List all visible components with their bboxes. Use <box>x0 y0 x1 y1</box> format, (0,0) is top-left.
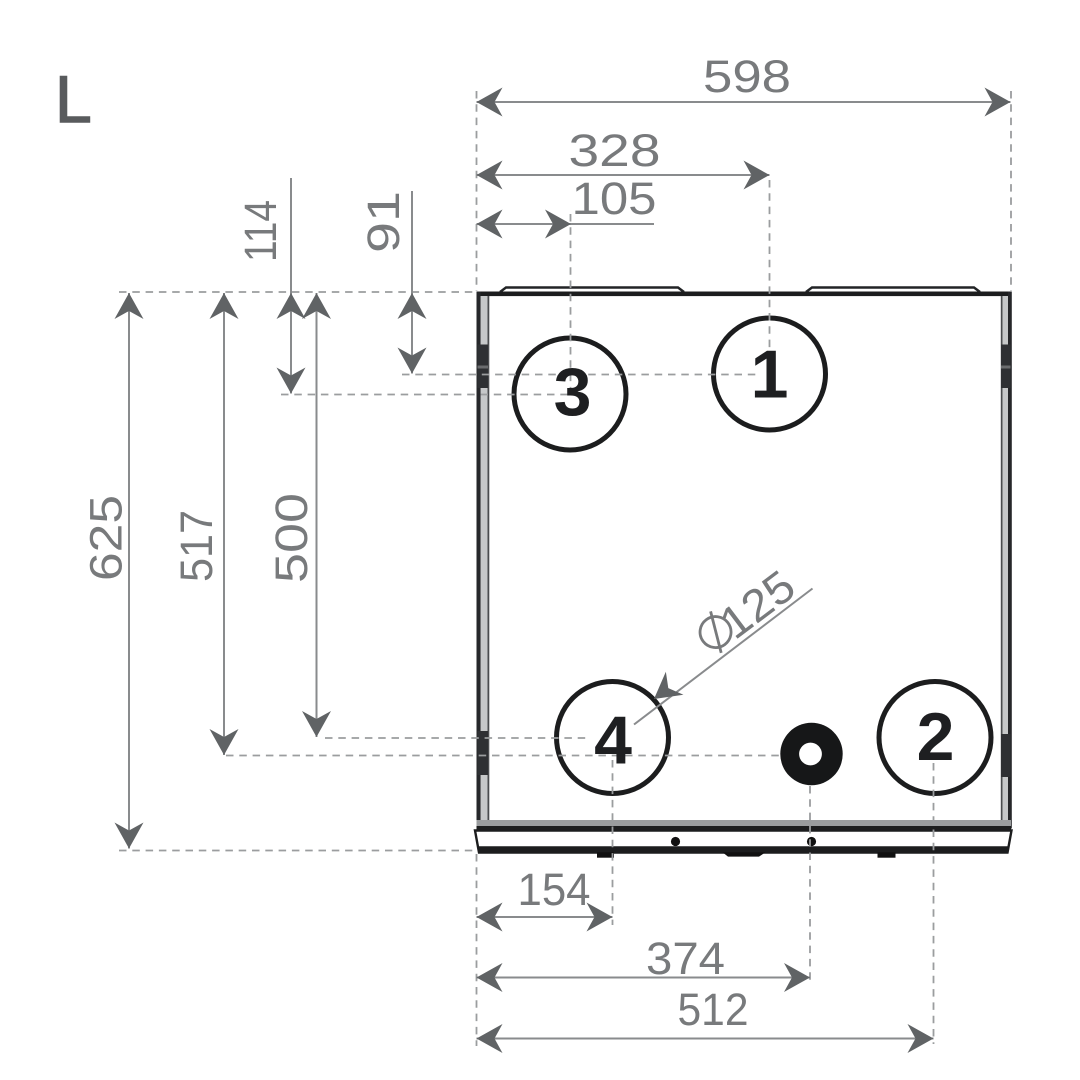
right edge latch mark lower <box>1001 734 1011 777</box>
port circle 3 <box>514 338 626 450</box>
unit top raised tab left <box>500 288 684 293</box>
unit left edge panel fill <box>481 296 488 824</box>
svg-text:105: 105 <box>572 173 657 224</box>
centerline horizontal circle 3 level <box>281 394 573 396</box>
svg-text:598: 598 <box>703 51 791 102</box>
centerline horizontal circle 1 level <box>402 374 760 376</box>
dimension 105 <box>477 173 657 239</box>
dimension 154 <box>477 864 613 932</box>
port circle 1 <box>714 318 826 430</box>
centerline vertical gland lower <box>809 786 811 984</box>
unit right edge panel fill <box>1003 296 1008 824</box>
drain center <box>723 852 766 856</box>
unit bottom edge line <box>477 826 1012 831</box>
foot left <box>597 852 614 857</box>
plinth screw left <box>671 837 680 846</box>
svg-text:374: 374 <box>646 933 725 984</box>
port circle 2 <box>879 682 991 794</box>
centerline horizontal circle 4 level <box>325 737 591 739</box>
centerline vertical circle 1 <box>769 180 771 374</box>
unit left edge outer line <box>477 292 481 829</box>
svg-text:1: 1 <box>751 337 789 413</box>
unit bottom shadow band <box>477 820 1012 826</box>
unit right edge outer line <box>1008 292 1012 829</box>
cable gland <box>780 723 842 785</box>
left edge latch mark lower <box>478 731 489 775</box>
dimension 114 <box>235 178 306 394</box>
dimension 517 <box>171 293 239 755</box>
svg-text:625: 625 <box>81 495 132 581</box>
unit right edge inner line <box>1001 296 1003 824</box>
svg-text:517: 517 <box>171 510 222 582</box>
dimension 500 <box>266 293 331 737</box>
svg-text:L: L <box>55 62 92 136</box>
centerline horizontal gland level <box>226 755 786 757</box>
dimension 91 <box>358 191 427 374</box>
svg-text:154: 154 <box>518 864 591 915</box>
plinth screw right <box>807 837 816 846</box>
centerline horizontal plinth bottom level <box>119 850 474 852</box>
centerline vertical circle 2 lower <box>933 763 935 1044</box>
unit top raised tab right <box>806 288 980 293</box>
right edge latch mark upper <box>1001 345 1011 389</box>
svg-text:2: 2 <box>917 699 955 775</box>
centerline vertical box right <box>1010 91 1012 291</box>
dimension diameter 125 label <box>690 560 805 664</box>
svg-text:114: 114 <box>235 200 286 262</box>
centerline horizontal box top <box>119 291 477 293</box>
foot right <box>878 852 896 857</box>
svg-text:500: 500 <box>266 493 317 583</box>
unit left edge inner line <box>488 296 490 824</box>
base plinth <box>475 831 1012 853</box>
dimension 625 <box>81 293 144 849</box>
centerline vertical box left <box>476 91 478 291</box>
dimension 374 <box>477 933 811 992</box>
centerline vertical circle 4 lower <box>612 760 614 925</box>
svg-text:512: 512 <box>678 984 749 1035</box>
left edge latch mark upper <box>478 345 489 389</box>
port circle 4 <box>557 682 669 794</box>
dimension 512 <box>477 984 934 1053</box>
centerline vertical box left lower <box>476 854 478 1046</box>
svg-text:328: 328 <box>569 125 661 176</box>
svg-text:3: 3 <box>554 354 592 430</box>
svg-text:91: 91 <box>358 191 409 253</box>
centerline vertical circle 3 <box>570 214 572 394</box>
dimension diameter 125 leader <box>634 589 813 725</box>
dimension 328 <box>477 125 770 190</box>
unit top edge line <box>477 292 1012 297</box>
dimension 598 <box>477 51 1011 117</box>
svg-text:4: 4 <box>594 703 632 779</box>
